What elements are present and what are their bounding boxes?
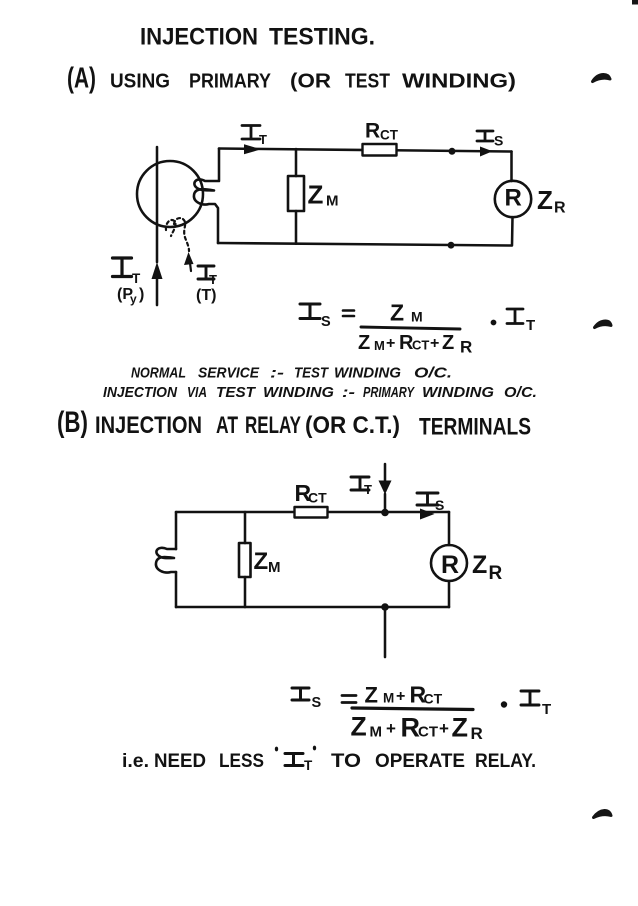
svg-text:Z: Z (254, 548, 269, 575)
svg-text:+: + (439, 719, 449, 738)
svg-text:+: + (396, 688, 405, 705)
svg-text:TERMINALS: TERMINALS (419, 414, 531, 441)
svg-text:S: S (312, 695, 322, 711)
svg-text:y: y (130, 292, 137, 306)
svg-text:Z: Z (537, 185, 553, 215)
svg-text:Z: Z (358, 332, 370, 354)
svg-text:(A): (A) (67, 63, 96, 95)
svg-text:AT: AT (216, 412, 238, 439)
svg-text:R: R (460, 338, 472, 357)
svg-text:INJECTION: INJECTION (95, 412, 202, 439)
svg-text:M: M (370, 724, 383, 741)
svg-text:TEST: TEST (294, 365, 330, 382)
svg-text:PRIMARY: PRIMARY (189, 71, 272, 93)
svg-text:T: T (542, 701, 551, 718)
svg-text:CT: CT (308, 490, 327, 506)
svg-text:O/C.: O/C. (414, 365, 452, 382)
svg-text:CT: CT (424, 691, 443, 707)
svg-text:): ) (139, 286, 144, 303)
svg-text:S: S (321, 314, 331, 330)
svg-text:+: + (386, 719, 396, 738)
svg-text:Z: Z (308, 180, 324, 210)
svg-text:SERVICE: SERVICE (198, 365, 260, 382)
svg-text:R: R (471, 724, 483, 743)
svg-text:T: T (304, 758, 313, 773)
svg-text:Z: Z (390, 300, 404, 326)
svg-text:i.e.: i.e. (122, 750, 149, 772)
svg-text:Z: Z (365, 683, 378, 708)
svg-text:OPERATE: OPERATE (375, 750, 465, 772)
svg-text:NEED: NEED (154, 750, 206, 772)
svg-text:T: T (259, 132, 267, 147)
svg-text:TEST: TEST (345, 71, 390, 93)
svg-text:S: S (435, 497, 444, 513)
svg-text:CT: CT (380, 128, 399, 143)
svg-text:M: M (326, 193, 339, 210)
svg-text:R: R (441, 551, 459, 579)
svg-text:R: R (505, 185, 522, 212)
svg-text:VIA: VIA (187, 384, 207, 401)
svg-text:T: T (526, 317, 535, 334)
svg-text:PRIMARY: PRIMARY (363, 384, 415, 401)
svg-text::-: :- (342, 384, 355, 401)
svg-text:S: S (494, 133, 503, 149)
svg-text:CT: CT (412, 338, 429, 353)
svg-text:CT: CT (418, 724, 438, 741)
svg-text:WINDING: WINDING (422, 384, 494, 401)
svg-text:T: T (364, 482, 372, 497)
svg-text:INJECTION: INJECTION (140, 24, 258, 51)
svg-text:R: R (489, 563, 503, 584)
svg-text:Z: Z (472, 551, 487, 579)
svg-text:T: T (209, 272, 217, 287)
svg-text:M: M (411, 309, 423, 325)
svg-text:NORMAL: NORMAL (131, 365, 186, 382)
svg-text:Z: Z (452, 713, 469, 743)
svg-text:WINDING): WINDING) (402, 71, 516, 93)
svg-text:+: + (386, 335, 395, 352)
svg-text::-: :- (270, 365, 284, 382)
svg-text:Z: Z (351, 712, 367, 742)
svg-text:RELAY: RELAY (245, 412, 301, 439)
svg-text:WINDING: WINDING (334, 365, 401, 382)
svg-text:(OR: (OR (290, 71, 332, 93)
svg-text:USING: USING (110, 71, 170, 93)
svg-text:M: M (374, 338, 385, 353)
svg-text:TO: TO (331, 750, 361, 772)
svg-text:M: M (268, 559, 281, 576)
svg-text:RELAY.: RELAY. (475, 750, 536, 772)
svg-text:LESS: LESS (219, 750, 264, 772)
svg-text:TESTING.: TESTING. (269, 24, 375, 51)
svg-text:R: R (365, 120, 380, 143)
svg-text:TEST: TEST (216, 384, 257, 401)
svg-text:Z: Z (442, 332, 454, 354)
svg-text:+: + (430, 335, 439, 352)
svg-text:(T): (T) (196, 287, 216, 304)
svg-text:(B): (B) (57, 406, 88, 439)
svg-text:O/C.: O/C. (504, 384, 537, 401)
svg-text:(OR C.T.): (OR C.T.) (305, 412, 400, 439)
svg-text:INJECTION: INJECTION (103, 384, 178, 401)
svg-text:T: T (132, 271, 141, 286)
svg-text:WINDING: WINDING (263, 384, 334, 401)
svg-text:R: R (554, 200, 566, 217)
svg-text:M: M (383, 691, 394, 706)
